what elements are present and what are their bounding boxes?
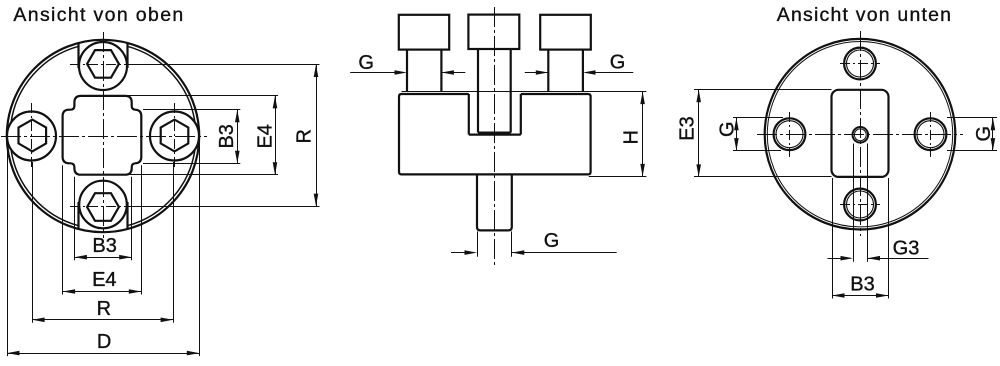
svg-text:R: R xyxy=(97,298,111,320)
dim E4 (vertical) dimension line xyxy=(275,96,277,175)
dim G (right hole) arrows xyxy=(991,118,996,131)
right view left hole center tick xyxy=(789,112,791,157)
left view outer circle (flange OD) xyxy=(7,40,199,232)
right view bottom hole bore circle xyxy=(844,189,876,221)
dim R (vertical) dimension line xyxy=(316,65,318,207)
left view horizontal center line xyxy=(1,136,207,138)
right view right hole center tick xyxy=(930,112,932,157)
left view top bolt hex socket xyxy=(87,50,119,78)
dim E3 extension lines xyxy=(694,89,832,91)
right view left hole bore circle xyxy=(774,118,806,150)
dim G (left hole) arrows xyxy=(734,118,739,131)
svg-text:Ansicht von oben: Ansicht von oben xyxy=(13,4,184,26)
dim E4 (vertical) extension lines xyxy=(128,95,278,97)
dim B3 (vertical) arrows xyxy=(235,110,240,123)
dim G (right hole) dimension line xyxy=(992,118,994,151)
svg-text:B3: B3 xyxy=(216,124,238,148)
middle center bolt tip xyxy=(478,132,511,134)
dim G (left bolt) leader and arrows xyxy=(350,72,394,74)
dim B3 (vertical) extension lines xyxy=(143,109,240,111)
left view center line through bottom bolt (horizontal tick) xyxy=(70,206,136,208)
right view center hole chamfer circle xyxy=(854,129,866,141)
left view bottom bolt circle (socket head) xyxy=(79,181,127,229)
right view top hole bore circle xyxy=(844,48,876,80)
dim R (vertical) arrows xyxy=(314,65,319,78)
left view right bolt hex socket xyxy=(161,120,189,152)
dim R (bottom) dimension line xyxy=(32,319,173,321)
left view center line through left bolt (vertical tick) xyxy=(31,103,33,170)
dim H arrows xyxy=(640,92,645,105)
middle center bolt shank xyxy=(477,49,479,133)
bottom bolt boss tangent lines xyxy=(77,202,79,229)
dim B3 (bottom) arrows xyxy=(74,255,87,260)
right view center rectangle (clamping boss) xyxy=(832,90,889,177)
svg-text:G: G xyxy=(716,121,738,137)
middle right bolt shank xyxy=(547,50,549,92)
middle view vertical center line xyxy=(494,7,496,265)
dim B3 (vertical) dimension line xyxy=(237,110,239,164)
dim R (bottom) arrows xyxy=(32,318,45,323)
right view bottom hole chamfer circle xyxy=(847,191,874,218)
dim D dimension line xyxy=(7,353,199,355)
dim R (bottom) extension lines xyxy=(32,162,34,323)
dim G3 extension lines xyxy=(853,144,855,262)
middle view stud (threaded spigot) xyxy=(477,174,512,230)
left view center cross-shaped clamping contour xyxy=(63,96,142,175)
middle left bolt head xyxy=(399,15,449,50)
svg-text:D: D xyxy=(97,331,111,353)
right view inner circle xyxy=(767,42,952,227)
svg-text:G: G xyxy=(973,126,995,142)
svg-text:G: G xyxy=(358,52,374,74)
svg-text:Ansicht von unten: Ansicht von unten xyxy=(777,4,952,26)
svg-text:B3: B3 xyxy=(850,274,874,296)
middle left bolt shank xyxy=(406,50,408,92)
dim G (right bolt) leader and arrows xyxy=(525,72,549,74)
right view outer circle xyxy=(765,39,956,230)
svg-text:E3: E3 xyxy=(676,116,698,140)
dim B3 (bottom view) arrows xyxy=(832,293,845,298)
svg-text:G: G xyxy=(610,52,626,74)
dim E4 (bottom) extension lines xyxy=(62,165,64,294)
dim E4 (bottom) dimension line xyxy=(63,291,142,293)
dim H dimension line xyxy=(642,92,644,177)
middle center bolt head xyxy=(468,15,519,49)
right view top hole chamfer circle xyxy=(847,50,874,77)
left view left bolt circle (socket head) xyxy=(7,112,56,161)
right view left hole chamfer circle xyxy=(776,121,803,148)
top bolt boss tangent lines xyxy=(77,43,79,68)
dim B3 (bottom view) extension lines xyxy=(832,178,834,299)
dim G3 leader and arrows xyxy=(828,258,841,260)
right view right hole chamfer circle xyxy=(917,121,944,148)
middle view top face line xyxy=(402,91,647,93)
dim G (stud) leader and arrows xyxy=(451,252,465,254)
svg-text:E4: E4 xyxy=(254,124,276,148)
left view inner circle (recess, interrupted at bolt bosses) xyxy=(127,149,195,226)
dim H extension line bottom xyxy=(589,176,647,178)
dim E4 (vertical) arrows xyxy=(273,96,278,109)
svg-text:R: R xyxy=(294,129,316,143)
dim G (left hole) extension lines xyxy=(733,117,783,119)
left view center line through top bolt (horizontal tick) xyxy=(70,64,136,66)
dim G (left hole) dimension line xyxy=(736,118,738,151)
right view top hole center tick xyxy=(840,63,880,65)
dim D arrows xyxy=(7,351,20,356)
left view vertical center line xyxy=(103,32,105,238)
dim B3 (bottom) dimension line xyxy=(74,257,131,259)
middle view slot walls xyxy=(468,94,470,135)
dim G (stud) extension lines xyxy=(477,231,479,256)
dim G (right hole) extension lines xyxy=(947,117,997,119)
svg-text:E4: E4 xyxy=(92,269,116,291)
right view right hole bore circle xyxy=(915,118,947,150)
left view bottom bolt hex socket xyxy=(87,193,119,221)
dim B3 (bottom) extension lines xyxy=(74,177,76,261)
middle view slot bottom xyxy=(469,134,521,136)
dim B3 (bottom view) dimension line xyxy=(832,295,889,297)
dim R (vertical) extension lines xyxy=(130,64,320,66)
left view top bolt circle (socket head) xyxy=(79,42,127,90)
left view center line through right bolt (vertical tick) xyxy=(174,103,176,170)
svg-text:H: H xyxy=(620,130,642,144)
svg-text:B3: B3 xyxy=(92,235,116,257)
right view vertical center line xyxy=(860,31,862,236)
dim E3 arrows xyxy=(696,90,701,103)
dim E3 dimension line xyxy=(698,90,700,177)
right view bottom hole center tick xyxy=(840,204,880,206)
left view right bolt circle (socket head) xyxy=(150,112,199,161)
svg-text:G3: G3 xyxy=(893,238,920,260)
dim D extension lines xyxy=(7,140,9,356)
middle right bolt head xyxy=(540,15,591,50)
right view horizontal center line xyxy=(757,134,963,136)
right view center hole bore circle xyxy=(853,127,869,143)
svg-text:G: G xyxy=(544,230,560,252)
middle view body outline xyxy=(399,94,591,174)
dim E4 (bottom) arrows xyxy=(63,289,76,294)
left view left bolt hex socket xyxy=(19,120,47,152)
